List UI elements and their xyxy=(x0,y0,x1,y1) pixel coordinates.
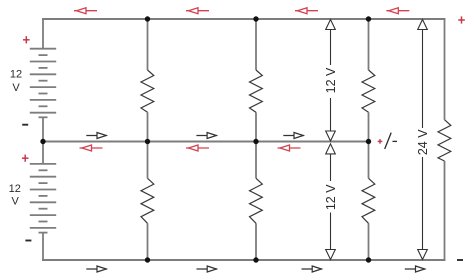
resistor R3 top row col3 xyxy=(362,70,375,112)
node top col1 xyxy=(145,16,150,21)
svg-text:12: 12 xyxy=(10,69,22,81)
node middle battery xyxy=(40,139,45,144)
current arrow black bottom 2 xyxy=(197,266,218,272)
svg-text:12: 12 xyxy=(9,183,21,195)
svg-text:V: V xyxy=(12,195,20,207)
svg-text:12 V: 12 V xyxy=(324,184,338,210)
current arrow red top 2 xyxy=(186,8,209,14)
wire column1 xyxy=(147,19,149,260)
wire column2 xyxy=(255,19,257,260)
dimension arrow 12V lower xyxy=(326,144,336,260)
battery B1 minus mark xyxy=(22,124,28,126)
node bottom col1 xyxy=(145,257,150,262)
current arrow red middle 2 xyxy=(186,145,209,151)
current arrow black middle 1 xyxy=(86,133,107,139)
current arrow black bottom 4 xyxy=(405,266,426,272)
dimension arrow 12V upper xyxy=(326,20,336,142)
wire top bus xyxy=(42,18,446,20)
node top col2 xyxy=(253,16,258,21)
current arrow red top 4 xyxy=(386,8,409,14)
node label minus right bottom xyxy=(457,259,463,261)
resistor R5 bottom row col2 xyxy=(250,178,263,223)
svg-text:12 V: 12 V xyxy=(324,67,338,93)
current arrow black bottom 1 xyxy=(86,266,107,272)
current arrow red middle 3 xyxy=(278,145,301,151)
battery B1 label 12 V xyxy=(10,69,22,95)
node bottom col3 xyxy=(366,257,371,262)
wire battery stems xyxy=(42,19,44,260)
dimension label 24 V xyxy=(416,129,430,155)
current arrow red top 3 xyxy=(295,8,318,14)
current arrow red middle 1 xyxy=(80,145,103,151)
node label plus-minus at middle right xyxy=(378,133,397,149)
wire middle bus xyxy=(42,141,369,143)
battery B2 12V xyxy=(30,164,56,233)
wire column3 xyxy=(368,19,370,260)
battery B2 plus mark xyxy=(22,155,29,162)
wire right branch xyxy=(444,19,446,260)
current arrow red top 1 xyxy=(74,8,97,14)
resistor R2 top row col2 xyxy=(250,70,263,112)
dimension arrow 24V right xyxy=(418,20,428,260)
resistor R4 bottom row col1 xyxy=(141,178,154,223)
resistor R1 top row col1 xyxy=(141,70,154,112)
current arrow black bottom 3 xyxy=(302,266,323,272)
current arrow black middle 2 xyxy=(196,133,217,139)
resistor R7 right branch xyxy=(438,120,451,161)
battery B1 12V xyxy=(30,49,56,118)
dimension label 12 V upper xyxy=(324,67,338,93)
svg-text:V: V xyxy=(12,82,20,94)
battery B2 label 12 V xyxy=(9,183,21,207)
svg-text:24 V: 24 V xyxy=(416,129,430,155)
resistor R6 bottom row col3 xyxy=(362,178,375,223)
node bottom col2 xyxy=(253,257,258,262)
node middle col2 xyxy=(253,139,258,144)
wire bottom bus xyxy=(42,259,446,261)
dimension label 12 V lower xyxy=(324,184,338,210)
battery B1 plus mark xyxy=(23,36,30,43)
current arrow black middle 3 xyxy=(283,133,304,139)
node middle col3 xyxy=(366,139,371,144)
battery B2 minus mark xyxy=(25,240,31,242)
node top col3 xyxy=(366,16,371,21)
node middle col1 xyxy=(145,139,150,144)
node label plus right top xyxy=(458,16,465,23)
